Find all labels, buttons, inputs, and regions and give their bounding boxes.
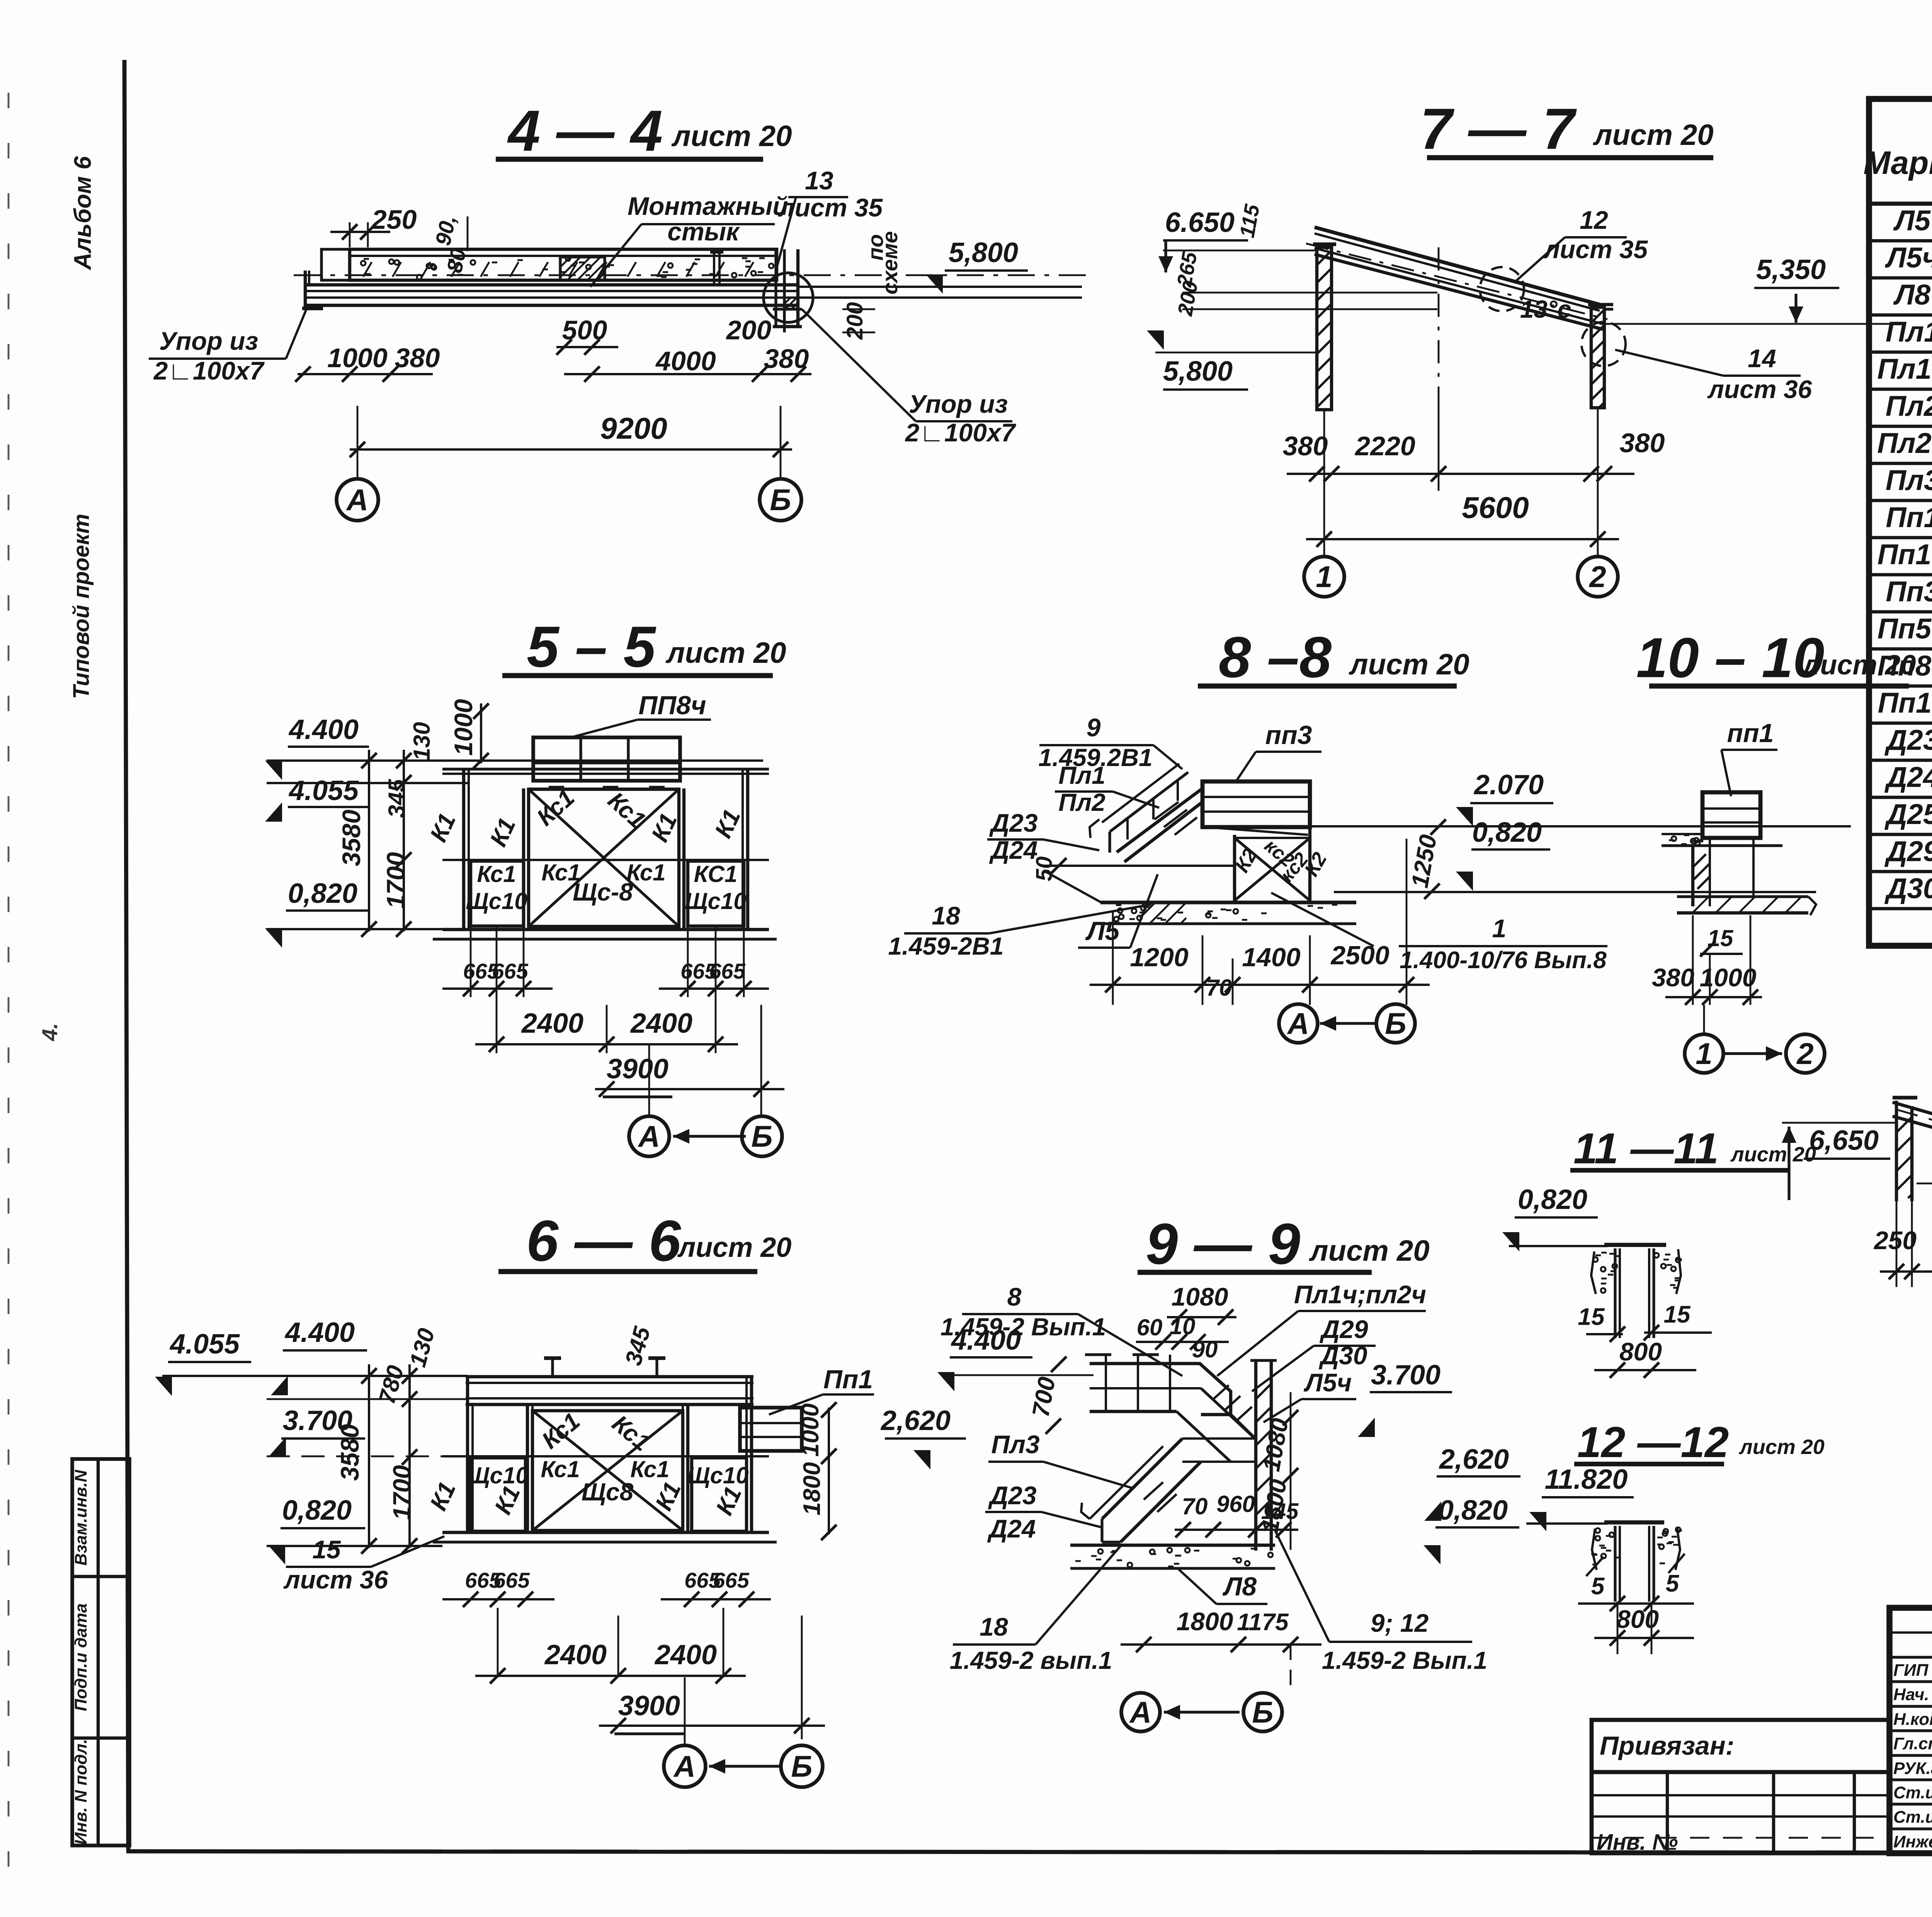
10-10 grid bubbles (1703, 1005, 1705, 1034)
svg-text:500: 500 (562, 315, 607, 345)
svg-text:К1: К1 (710, 805, 746, 842)
13-13 left wall (1895, 1101, 1898, 1201)
9-9 upper flight steps (1213, 1385, 1229, 1400)
7-7 dim row 380 2220 380 (1323, 410, 1325, 491)
6-6 dim 2400 2400 (497, 1608, 499, 1677)
svg-text:Д23: Д23 (988, 1481, 1036, 1510)
9-9 base slab (1070, 1544, 1275, 1547)
svg-text:0,820: 0,820 (1518, 1184, 1587, 1215)
svg-text:Кс1: Кс1 (630, 1456, 669, 1482)
sheet bottom border line (126, 1851, 1932, 1853)
8-8 base slab (1100, 901, 1356, 904)
svg-text:Подп.и дата: Подп.и дата (71, 1603, 90, 1711)
9-9 upper flight sloped (1177, 1364, 1231, 1415)
svg-text:5 – 5: 5 – 5 (527, 614, 656, 679)
4-4 mid bolt (713, 250, 715, 285)
7-7 right column (1591, 307, 1604, 408)
5-5 grid bubbles (648, 1044, 650, 1116)
5-5 dim 2400 2400 (496, 997, 498, 1053)
title block signature rows (1889, 1656, 1932, 1658)
privyazan grid (1666, 1772, 1669, 1853)
svg-text:5,350: 5,350 (1756, 254, 1826, 285)
5-5 base lines (442, 928, 769, 931)
svg-text:Пп1ч: Пп1ч (1878, 538, 1932, 570)
svg-text:Б: Б (791, 1749, 812, 1783)
5-5 dim 665 665 left (470, 928, 472, 997)
4-4 dim row 1000 380 (298, 373, 433, 375)
svg-text:13°с: 13°с (1520, 295, 1571, 323)
svg-text:Упор из: Упор из (159, 327, 258, 355)
12-12 posts (1614, 1526, 1616, 1602)
5-5 dim 665 665 right (687, 928, 689, 997)
table header bottom line (1869, 202, 1932, 206)
svg-text:7 — 7: 7 — 7 (1420, 96, 1577, 161)
6-6 base lines (442, 1531, 769, 1534)
svg-text:Пп1: Пп1 (823, 1365, 873, 1394)
svg-text:КС1: КС1 (694, 861, 738, 887)
8-8 rail hook left (1090, 819, 1099, 838)
svg-text:3580: 3580 (337, 809, 366, 866)
svg-text:1080: 1080 (1258, 1416, 1294, 1474)
5-5 dim 3900 (760, 1005, 762, 1098)
svg-text:4.055: 4.055 (169, 1329, 240, 1360)
9-9 rail lower (1090, 1446, 1163, 1519)
svg-text:Д29: Д29 (1319, 1315, 1368, 1343)
svg-text:лист 20: лист 20 (1348, 648, 1469, 681)
svg-text:1800: 1800 (799, 1462, 825, 1515)
10-10 footing (1677, 895, 1808, 898)
svg-text:А: А (1129, 1695, 1151, 1729)
svg-text:1200: 1200 (1130, 943, 1188, 972)
svg-text:Щс10: Щс10 (685, 888, 746, 914)
svg-text:Привязан:: Привязан: (1600, 1731, 1734, 1760)
svg-text:2: 2 (1588, 560, 1606, 594)
4-4 dim 250 (349, 222, 351, 247)
svg-text:Пл1: Пл1 (1886, 316, 1932, 348)
title block outer frame (1889, 1608, 1932, 1853)
4-4 right detail circle (764, 273, 813, 322)
5-5 top chords (442, 768, 769, 770)
svg-text:лист 20: лист 20 (1592, 119, 1713, 152)
8-8 ground line left (1043, 865, 1235, 867)
svg-text:Д30: Д30 (1318, 1341, 1367, 1370)
svg-text:665: 665 (713, 1568, 749, 1592)
svg-text:130: 130 (409, 722, 435, 761)
svg-text:1080: 1080 (1172, 1282, 1228, 1311)
8-8 long level line upper (1309, 825, 1851, 827)
svg-text:700: 700 (1027, 1375, 1061, 1419)
svg-text:Щс10: Щс10 (467, 1462, 528, 1488)
svg-text:Альбом 6: Альбом 6 (70, 156, 96, 271)
4-4 right end post (774, 249, 777, 327)
svg-text:90: 90 (1192, 1336, 1218, 1362)
9-9 lower flight (1102, 1439, 1182, 1519)
svg-text:3900: 3900 (618, 1691, 680, 1721)
svg-text:Кс1: Кс1 (477, 861, 516, 887)
5-5 cap feet (549, 786, 564, 790)
6-6 top beam (466, 1375, 753, 1378)
svg-text:13: 13 (805, 166, 833, 195)
svg-text:Инв. №: Инв. № (1597, 1830, 1678, 1855)
svg-text:К2: К2 (1300, 849, 1332, 880)
svg-text:18: 18 (980, 1612, 1008, 1641)
svg-text:8 –8: 8 –8 (1219, 625, 1332, 690)
svg-text:2,620: 2,620 (1439, 1444, 1509, 1475)
8-8 stair rail (1110, 772, 1188, 832)
svg-text:1.400-10/76 Вып.8: 1.400-10/76 Вып.8 (1400, 947, 1607, 974)
svg-text:4.400: 4.400 (951, 1325, 1021, 1356)
sheet left border line (124, 60, 128, 1851)
svg-text:Пл3: Пл3 (991, 1430, 1039, 1459)
svg-text:лист 20: лист 20 (1730, 1143, 1816, 1166)
svg-text:780: 780 (374, 1363, 409, 1407)
svg-text:70: 70 (1182, 1493, 1208, 1519)
svg-text:380: 380 (395, 343, 440, 373)
svg-text:5: 5 (1591, 1573, 1605, 1600)
svg-text:лист 36: лист 36 (1707, 375, 1813, 403)
6-6 cross brace panel (532, 1411, 683, 1531)
4-4 grid bubble Б (760, 479, 801, 521)
svg-text:1000: 1000 (1700, 963, 1757, 992)
6-6 dim 665 665 right (661, 1598, 771, 1600)
svg-text:Л5: Л5 (1085, 916, 1120, 946)
4-4 grid bubble А (357, 478, 359, 480)
svg-text:Д23: Д23 (989, 809, 1037, 837)
svg-text:А: А (673, 1749, 696, 1783)
svg-text:115: 115 (1235, 202, 1264, 239)
5-5 reference line 4.055 (267, 782, 468, 784)
svg-text:Д23: Д23 (1884, 724, 1932, 756)
svg-text:2∟100х7: 2∟100х7 (153, 356, 265, 385)
5-5 handrail cap box (533, 737, 680, 781)
svg-text:Л5ч: Л5ч (1304, 1368, 1352, 1397)
svg-text:250: 250 (371, 204, 417, 235)
svg-text:1700: 1700 (381, 852, 410, 909)
svg-text:9: 9 (1087, 713, 1101, 742)
5-5 frame columns (462, 769, 465, 930)
4-4 concrete slab (350, 249, 777, 280)
svg-text:1000: 1000 (327, 343, 388, 373)
table outer frame (1869, 99, 1932, 946)
6-6 dim 3900 (801, 1616, 803, 1739)
svg-text:200: 200 (842, 302, 867, 340)
svg-text:9; 12: 9; 12 (1371, 1609, 1429, 1637)
svg-text:лист 20: лист 20 (665, 637, 786, 669)
svg-text:Д24: Д24 (987, 1514, 1036, 1543)
svg-text:Пп1: Пп1 (1886, 501, 1932, 533)
bottom-left stamp table (72, 1459, 129, 1845)
svg-text:10 – 10: 10 – 10 (1636, 626, 1824, 689)
svg-text:Пп3: Пп3 (1886, 575, 1932, 608)
svg-text:1400: 1400 (1242, 943, 1300, 972)
11-11 concrete blobs (1601, 1267, 1605, 1272)
svg-text:15: 15 (1664, 1301, 1691, 1328)
svg-text:10: 10 (1170, 1313, 1196, 1339)
svg-text:3580: 3580 (335, 1424, 364, 1481)
svg-text:250: 250 (1873, 1226, 1917, 1255)
svg-text:0,820: 0,820 (1438, 1495, 1508, 1526)
svg-text:1000: 1000 (797, 1403, 824, 1457)
svg-text:90,: 90, (430, 213, 461, 247)
svg-text:ПП8ч: ПП8ч (638, 691, 706, 720)
svg-text:Ст.инж.: Ст.инж. (1893, 1783, 1932, 1802)
svg-text:лист 36: лист 36 (283, 1565, 389, 1594)
svg-text:Щс10: Щс10 (466, 888, 527, 914)
svg-text:А: А (346, 483, 368, 517)
svg-text:Пл2: Пл2 (1058, 788, 1105, 816)
8-8 long base line lower (1334, 891, 1816, 893)
svg-text:1: 1 (1696, 1037, 1712, 1071)
svg-text:Ст.инж.: Ст.инж. (1893, 1808, 1932, 1827)
svg-text:1000: 1000 (449, 699, 478, 756)
10-10 column (1691, 846, 1694, 906)
svg-text:Инв. N подл.: Инв. N подл. (71, 1739, 90, 1845)
scan fold dash line left edge (8, 93, 10, 1894)
svg-text:Пл1ч: Пл1ч (1877, 353, 1932, 385)
svg-text:0,820: 0,820 (1472, 817, 1542, 848)
10-10 platform box (1702, 792, 1760, 838)
6-6 columns (466, 1377, 469, 1532)
svg-text:Гл.спец.: Гл.спец. (1893, 1734, 1932, 1753)
svg-text:Л8: Л8 (1222, 1572, 1257, 1601)
svg-text:800: 800 (1619, 1337, 1662, 1366)
svg-text:лист 20: лист 20 (677, 1232, 792, 1263)
svg-text:схеме: схеме (878, 231, 902, 295)
svg-text:380: 380 (1620, 428, 1665, 458)
svg-text:1250: 1250 (1406, 833, 1442, 890)
svg-text:Н.контр.: Н.контр. (1893, 1710, 1932, 1729)
svg-text:Пл3: Пл3 (1886, 464, 1932, 496)
svg-text:Кс1: Кс1 (532, 784, 580, 831)
svg-text:345: 345 (384, 778, 410, 818)
svg-text:Пл1ч;пл2ч: Пл1ч;пл2ч (1294, 1280, 1426, 1309)
svg-text:4.: 4. (37, 1023, 62, 1042)
svg-text:пп1: пп1 (1727, 718, 1774, 748)
svg-text:130: 130 (405, 1326, 440, 1370)
svg-text:2400: 2400 (630, 1008, 692, 1039)
svg-text:18: 18 (932, 901, 960, 930)
6-6 top bolts (551, 1357, 554, 1377)
svg-text:800: 800 (1616, 1605, 1659, 1633)
svg-text:Л5: Л5 (1893, 204, 1931, 237)
11-11 posts (1614, 1248, 1616, 1338)
13-13 dims 250 5600 250 (1896, 1201, 1898, 1287)
svg-text:380: 380 (1652, 963, 1694, 992)
svg-text:3.700: 3.700 (1371, 1360, 1440, 1391)
svg-text:2,620: 2,620 (880, 1405, 951, 1436)
svg-text:Кс1: Кс1 (603, 787, 651, 834)
7-7 dim 5600 (1306, 538, 1619, 540)
svg-text:380: 380 (1283, 431, 1328, 461)
svg-text:РУК.гр.: РУК.гр. (1893, 1759, 1932, 1778)
7-7 middle axis dashed (1438, 247, 1440, 410)
svg-text:2∟100х7: 2∟100х7 (905, 418, 1017, 447)
svg-text:Л8: Л8 (1893, 279, 1931, 311)
svg-text:2400: 2400 (521, 1008, 583, 1039)
12-12 reference line (1526, 1522, 1607, 1525)
svg-text:Л5ч: Л5ч (1884, 242, 1932, 274)
svg-text:665: 665 (492, 959, 528, 983)
table row lines (1869, 239, 1932, 242)
4-4 mid embed detail (560, 257, 605, 280)
6-6 reference lines (162, 1375, 468, 1377)
svg-text:лист 20: лист 20 (1738, 1435, 1825, 1459)
svg-text:лист 35: лист 35 (1543, 235, 1648, 264)
svg-text:345: 345 (620, 1323, 655, 1368)
svg-text:Пп8ч: Пп8ч (1878, 650, 1932, 682)
svg-text:145: 145 (1261, 1499, 1299, 1524)
svg-text:Пл1: Пл1 (1058, 761, 1105, 789)
svg-text:Кс1: Кс1 (626, 860, 665, 885)
svg-text:6,650: 6,650 (1809, 1125, 1879, 1156)
svg-text:Пл2: Пл2 (1886, 390, 1932, 422)
svg-text:200: 200 (726, 315, 772, 345)
4-4 left stop angle (304, 271, 307, 309)
svg-text:пп3: пп3 (1265, 720, 1312, 750)
6-6 label ПП1 box (740, 1408, 802, 1451)
svg-text:лист 20: лист 20 (1308, 1234, 1429, 1267)
svg-text:4 — 4: 4 — 4 (507, 98, 663, 163)
svg-text:5,800: 5,800 (949, 237, 1018, 268)
9-9 grid bubbles (1290, 1645, 1292, 1689)
11-11 reference line (1509, 1245, 1607, 1247)
svg-text:8: 8 (1007, 1282, 1022, 1311)
7-7 grid bubble 1 (1323, 491, 1325, 557)
svg-text:1175: 1175 (1237, 1609, 1289, 1636)
5-5 right small panel (688, 861, 744, 926)
svg-text:1: 1 (1492, 914, 1507, 943)
4-4 beam lines (305, 283, 798, 286)
svg-text:ГИП: ГИП (1893, 1661, 1929, 1680)
svg-text:лист 20: лист 20 (671, 120, 792, 153)
svg-text:Упор из: Упор из (909, 390, 1008, 418)
svg-text:4.400: 4.400 (284, 1317, 355, 1348)
svg-text:60: 60 (1137, 1314, 1163, 1340)
svg-text:стык: стык (667, 217, 740, 246)
9-9 top rail grid (1090, 1362, 1177, 1365)
svg-text:А: А (638, 1119, 660, 1153)
svg-text:665: 665 (709, 959, 745, 983)
svg-text:665: 665 (493, 1568, 530, 1592)
svg-text:14: 14 (1748, 344, 1776, 373)
svg-text:Взам.инв.N: Взам.инв.N (71, 1469, 90, 1566)
svg-text:Д30: Д30 (1884, 872, 1932, 904)
svg-text:Марка: Марка (1863, 145, 1932, 181)
svg-text:1.459-2 Вып.1: 1.459-2 Вып.1 (1322, 1646, 1487, 1674)
svg-text:0,820: 0,820 (288, 878, 357, 909)
svg-text:12: 12 (1580, 206, 1608, 234)
svg-text:2400: 2400 (654, 1639, 717, 1670)
8-8 platform box (1202, 781, 1310, 827)
svg-text:1700: 1700 (388, 1465, 416, 1520)
7-7 roof beam sloped lines (1315, 227, 1600, 305)
5-5 cross brace panel (529, 789, 679, 926)
svg-text:380: 380 (764, 344, 809, 374)
svg-text:4.400: 4.400 (288, 714, 359, 745)
svg-text:2220: 2220 (1354, 431, 1415, 461)
svg-text:Нач. отд: Нач. отд (1893, 1685, 1932, 1704)
4-4 dim 4000 380 200 (564, 373, 811, 375)
4-4 dim 500 (556, 346, 618, 348)
4-4 beam centerline (294, 274, 1094, 276)
svg-text:Щс8: Щс8 (582, 1478, 634, 1506)
8-8 stairs flight (1117, 788, 1202, 852)
12-12 column top plate (1604, 1520, 1664, 1525)
svg-text:2.070: 2.070 (1473, 770, 1544, 800)
svg-text:Б: Б (1385, 1006, 1406, 1040)
svg-text:2500: 2500 (1330, 941, 1389, 970)
svg-text:Монтажный: Монтажный (628, 192, 788, 220)
svg-text:К1: К1 (425, 809, 461, 846)
12-12 concrete blobs (1601, 1554, 1606, 1558)
svg-text:Б: Б (1252, 1695, 1273, 1729)
privyazan box (1592, 1720, 1889, 1853)
svg-text:5600: 5600 (1462, 490, 1529, 524)
svg-text:Д25: Д25 (1884, 798, 1932, 830)
svg-text:9 — 9: 9 — 9 (1146, 1211, 1300, 1276)
svg-text:2: 2 (1796, 1037, 1813, 1071)
svg-text:Д24: Д24 (1884, 761, 1932, 793)
svg-text:4000: 4000 (655, 346, 716, 376)
svg-text:1800: 1800 (1177, 1607, 1233, 1636)
svg-text:11 —11: 11 —11 (1573, 1124, 1719, 1173)
4-4 slab left step (321, 249, 350, 280)
7-7 grid bubble 2 (1597, 491, 1599, 557)
svg-text:12 —12: 12 —12 (1577, 1418, 1729, 1466)
svg-text:9200: 9200 (600, 411, 667, 445)
svg-text:15: 15 (1578, 1304, 1605, 1330)
svg-text:Щс-8: Щс-8 (573, 878, 633, 906)
svg-text:5: 5 (1666, 1570, 1680, 1597)
9-9 wall strip (1254, 1360, 1257, 1551)
svg-text:6.650: 6.650 (1165, 207, 1235, 238)
svg-text:11.820: 11.820 (1545, 1464, 1628, 1495)
8-8 support tower (1233, 835, 1236, 902)
11-11 column top plate (1604, 1243, 1666, 1247)
svg-text:Б: Б (751, 1119, 772, 1153)
svg-text:Б: Б (770, 483, 791, 517)
svg-text:960: 960 (1216, 1491, 1255, 1517)
4-4 dim 9200 (357, 406, 359, 479)
6-6 dim 665 665 left (442, 1598, 554, 1600)
svg-text:0,820: 0,820 (282, 1495, 352, 1526)
8-8 dim row 1200 1400 2500 (1112, 912, 1114, 1005)
svg-text:Пп10: Пп10 (1878, 687, 1932, 719)
13-13 roof slab sloped (1893, 1102, 1932, 1183)
svg-text:Инженер: Инженер (1893, 1832, 1932, 1851)
svg-text:Кс1: Кс1 (541, 1456, 580, 1482)
svg-text:6 — 6: 6 — 6 (526, 1208, 682, 1273)
svg-text:Типовой проект: Типовой проект (69, 514, 94, 699)
svg-text:1.459-2 вып.1: 1.459-2 вып.1 (950, 1646, 1112, 1674)
svg-text:1.459-2В1: 1.459-2В1 (888, 932, 1004, 960)
svg-text:3900: 3900 (607, 1054, 668, 1084)
svg-text:5,800: 5,800 (1163, 356, 1233, 387)
10-10 floor line (1662, 844, 1782, 847)
svg-text:Д29: Д29 (1884, 835, 1932, 867)
svg-text:1: 1 (1316, 560, 1332, 594)
8-8 grid bubbles (1294, 1005, 1295, 1028)
10-10 dim 380 1000 (1692, 915, 1694, 1005)
7-7 detail circle mid (1480, 267, 1524, 311)
svg-text:А: А (1287, 1006, 1309, 1040)
svg-text:4.055: 4.055 (288, 775, 359, 806)
5-5 reference line 4.400 (267, 759, 763, 762)
7-7 left column (1317, 247, 1332, 410)
9-9 mid landing (1182, 1437, 1256, 1440)
svg-text:Пл2ч: Пл2ч (1877, 427, 1932, 459)
svg-text:70: 70 (1206, 975, 1232, 1001)
